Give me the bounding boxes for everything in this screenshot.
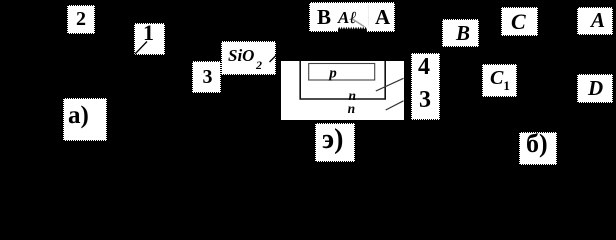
label box C [501,7,538,36]
contact label A [375,7,390,28]
device body (outer n substrate region) [281,61,404,120]
label 4 [418,55,430,79]
gate metal strip with zigzag top edge [338,27,367,32]
leader line inside box 1 [135,42,147,55]
label 3 lower [419,88,431,112]
leader line inside SiO2 box [270,55,277,62]
label box э) [315,123,355,162]
contact label B [317,7,331,28]
label box 4 / 3 [411,53,440,120]
gray leader from Al to gate strip [353,19,365,27]
label box а) [63,98,107,141]
gate metal label Al [338,9,357,26]
label box A italic [577,7,613,35]
leader from 3 to substrate [386,101,404,110]
label box D [577,74,613,103]
label box 3 [192,61,221,93]
contacts box B Al A [309,2,395,32]
label box B italic [442,19,479,47]
label box C1 [482,64,517,97]
label box б) [519,132,557,165]
epitaxial n region rectangle [300,61,385,99]
p base region rectangle [309,64,375,81]
leader from 4 to epitaxial layer [376,78,404,91]
faint contact line right of Al [368,5,370,26]
label box 1 [134,23,165,55]
label box 2 [67,5,95,34]
label box SiO2 [221,41,276,75]
